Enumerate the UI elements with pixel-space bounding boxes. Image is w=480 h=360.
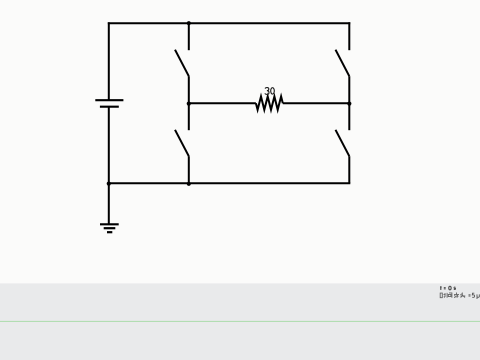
wire: bridge2 middle segment <box>348 76 350 130</box>
switch SW2 blade <box>336 50 350 76</box>
battery V1 bottom plate <box>100 106 119 108</box>
resistor R1 value label "30" <box>265 88 275 95</box>
glyph = <box>469 295 471 296</box>
ground bar 2 <box>104 227 116 229</box>
wire: middle rail left of resistor <box>189 102 256 104</box>
digit 0 <box>271 88 275 94</box>
glyph 0 <box>449 286 451 290</box>
battery V1 top plate <box>95 99 123 101</box>
junction node: middle rail / bridge2 <box>347 102 351 106</box>
wire: bridge1 middle segment <box>188 76 190 130</box>
switch SW4 blade <box>336 130 350 156</box>
scope zero-line (green) <box>0 320 480 322</box>
glyph = <box>444 288 446 289</box>
status panel background <box>0 283 480 360</box>
wire: left rail upper (to battery) <box>108 22 110 100</box>
glyph t <box>440 286 442 290</box>
wire: left rail lower (battery to ground stem) <box>108 107 110 225</box>
wire: top rail <box>108 22 350 24</box>
wire: bridge2 lower segment <box>348 156 350 183</box>
CJK glyph blob 2 (间) <box>447 293 452 298</box>
CJK glyph blob 4 (长) <box>460 293 465 298</box>
ground bar 3 <box>107 231 112 233</box>
junction node: bottom rail / bridge1 <box>187 182 191 186</box>
digit 3 <box>265 88 269 95</box>
junction node: bottom rail / battery branch <box>107 182 111 186</box>
wire: bridge1 lower segment <box>188 156 190 184</box>
status text line 2: 时间步长 = 5 µs (CJK drawn as shapes) <box>440 293 465 298</box>
resistor R1 zigzag <box>256 97 283 110</box>
status text line 2 latin part: = 5 µ <box>469 293 480 299</box>
CJK glyph blob 3 (步) <box>454 293 459 298</box>
status text line 1: t = 0 s <box>440 286 455 290</box>
ground bar 1 <box>100 223 119 225</box>
switch SW3 blade <box>175 130 189 156</box>
glyph 5 <box>472 293 474 297</box>
switch SW1 fixed stub <box>188 23 190 50</box>
junction node: top rail / bridge1 <box>187 21 191 25</box>
switch SW2 fixed stub <box>348 22 350 50</box>
wire: middle rail right of resistor <box>283 102 350 104</box>
glyph s <box>454 287 456 290</box>
switch SW1 blade <box>175 50 189 76</box>
wire: bottom rail <box>109 182 350 184</box>
junction node: middle rail / bridge1 <box>187 102 191 106</box>
glyph µ (partially cut at right edge) <box>477 294 479 299</box>
CJK glyph blob 1 (时) <box>440 293 445 298</box>
